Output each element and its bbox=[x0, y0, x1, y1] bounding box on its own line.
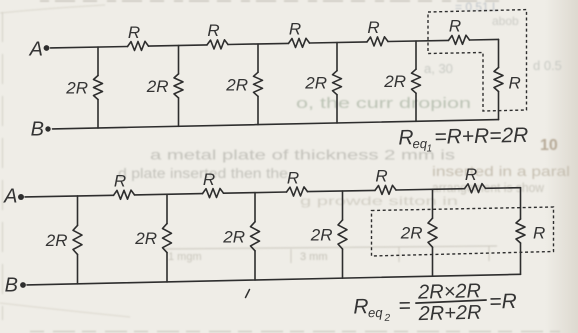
wire: shunt branch 5 vertical (lower circuit) bbox=[432, 189, 434, 276]
svg-text:R: R bbox=[207, 21, 219, 40]
wire: shunt branch 5 vertical (upper circuit) bbox=[415, 41, 417, 121]
resistor R series 4 (lower circuit) bbox=[375, 185, 396, 194]
svg-text:R: R bbox=[114, 172, 126, 191]
equation Req1 = R + R = 2R bbox=[398, 124, 529, 155]
resistor R series 2 (upper circuit) bbox=[207, 40, 228, 49]
fraction bar bbox=[415, 300, 487, 303]
svg-text:o, the curr dropion: o, the curr dropion bbox=[296, 95, 471, 112]
svg-text:R: R bbox=[509, 74, 521, 93]
svg-text:R: R bbox=[289, 20, 301, 39]
node A terminal dot (upper circuit) bbox=[44, 45, 50, 51]
wire: shunt branch 1 vertical (lower circuit) bbox=[77, 196, 79, 284]
resistor 2R shunt 5 (upper circuit) bbox=[412, 69, 421, 93]
wire: shunt branch 3 vertical (upper circuit) bbox=[257, 44, 259, 125]
node B terminal dot (lower circuit) bbox=[20, 282, 26, 288]
svg-text:inserted in a paral: inserted in a paral bbox=[432, 163, 570, 179]
stray comma mark under bottom rail bbox=[246, 290, 250, 298]
svg-text:R: R bbox=[465, 165, 477, 184]
equation Req2 = 2Rx2R/(2R+2R) = R bbox=[353, 279, 517, 326]
svg-text:= 0.51 L: = 0.51 L bbox=[455, 0, 499, 14]
svg-text:a, 30: a, 30 bbox=[424, 61, 453, 76]
svg-text:2R: 2R bbox=[134, 229, 157, 248]
svg-text:=R+R=2R: =R+R=2R bbox=[434, 124, 528, 149]
node A terminal dot (lower circuit) bbox=[18, 194, 24, 200]
svg-text:B: B bbox=[5, 275, 18, 297]
svg-text:2R: 2R bbox=[383, 72, 406, 91]
svg-text:3 mm: 3 mm bbox=[300, 251, 328, 263]
wire: node A top rail (lower circuit) bbox=[25, 188, 521, 197]
svg-text:=R: =R bbox=[489, 290, 517, 314]
svg-text:A: A bbox=[29, 39, 43, 61]
resistor R series 3 (upper circuit) bbox=[289, 38, 310, 47]
svg-text:10: 10 bbox=[540, 137, 558, 154]
svg-text:R: R bbox=[203, 170, 215, 189]
resistor R series 2 (lower circuit) bbox=[203, 189, 224, 198]
svg-text:d 0.5: d 0.5 bbox=[533, 58, 562, 73]
svg-text:2R: 2R bbox=[65, 79, 88, 98]
svg-text:2R: 2R bbox=[146, 77, 169, 96]
svg-text:eq: eq bbox=[368, 305, 384, 320]
resistor 2R shunt 4 (lower circuit) bbox=[338, 220, 347, 249]
svg-text:R: R bbox=[533, 224, 545, 243]
svg-text:2R: 2R bbox=[304, 74, 327, 93]
ghost table lines bbox=[163, 246, 497, 249]
wire: shunt branch 4 vertical (upper circuit) bbox=[336, 43, 338, 124]
svg-text:R: R bbox=[375, 167, 387, 186]
wire: node B bottom rail (lower circuit) bbox=[27, 274, 521, 285]
wire: shunt branch 4 vertical (lower circuit) bbox=[342, 191, 344, 278]
resistor R series 5 (lower circuit) bbox=[465, 184, 486, 193]
resistor R series 5 (upper circuit) bbox=[449, 35, 470, 44]
resistor 2R shunt 3 (lower circuit) bbox=[251, 222, 260, 251]
wire: right vertical segment (lower circuit) bbox=[520, 188, 522, 275]
resistor 2R shunt 1 (lower circuit) bbox=[73, 225, 82, 254]
svg-text:A: A bbox=[3, 186, 17, 208]
svg-text:R: R bbox=[353, 295, 369, 318]
wire: shunt branch 3 vertical (lower circuit) bbox=[254, 193, 256, 280]
svg-text:2R: 2R bbox=[310, 226, 333, 245]
svg-text:2: 2 bbox=[384, 313, 391, 324]
wire: shunt branch 2 vertical (upper circuit) bbox=[178, 46, 180, 127]
wire: shunt branch 2 vertical (lower circuit) bbox=[166, 194, 168, 282]
resistor 2R shunt 3 (upper circuit) bbox=[254, 72, 263, 96]
svg-text:2R: 2R bbox=[45, 231, 68, 250]
svg-text:R: R bbox=[128, 23, 140, 42]
resistor R series 1 (lower circuit) bbox=[114, 190, 135, 199]
dashed highlight box around last 2R and R shunts (lower circuit) bbox=[372, 207, 554, 256]
svg-text:R: R bbox=[449, 17, 461, 36]
faint scan line bottom left bbox=[0, 303, 130, 317]
resistor 2R shunt 5 (lower circuit) bbox=[428, 218, 437, 247]
faint scan line top left bbox=[0, 5, 105, 13]
svg-text:1: 1 bbox=[426, 143, 432, 154]
svg-text:R: R bbox=[287, 168, 299, 187]
node B terminal dot (upper circuit) bbox=[45, 126, 50, 131]
resistor 2R shunt 4 (upper circuit) bbox=[333, 71, 342, 95]
wire: right vertical segment (upper circuit) bbox=[498, 39, 500, 119]
resistor 2R shunt 1 (upper circuit) bbox=[94, 76, 103, 100]
resistor R shunt right (upper circuit) bbox=[494, 68, 503, 92]
svg-text:abob: abob bbox=[492, 14, 519, 28]
dashed highlight box around last R series and R shunt (upper circuit) bbox=[428, 10, 527, 111]
svg-text:2R+2R: 2R+2R bbox=[417, 302, 481, 325]
resistor 2R shunt 2 (upper circuit) bbox=[174, 74, 183, 98]
svg-text:2R: 2R bbox=[400, 224, 423, 243]
svg-text:2R: 2R bbox=[225, 75, 248, 94]
svg-text:R: R bbox=[367, 18, 379, 37]
resistor R shunt right (lower circuit) bbox=[516, 219, 525, 243]
resistor 2R shunt 2 (lower circuit) bbox=[163, 224, 172, 253]
svg-text:B: B bbox=[31, 119, 44, 141]
wire: shunt branch 1 vertical (upper circuit) bbox=[97, 47, 99, 128]
resistor R series 4 (upper circuit) bbox=[367, 37, 388, 46]
wire: node A top rail (upper circuit) bbox=[51, 39, 499, 48]
svg-text:2R: 2R bbox=[222, 227, 245, 246]
wire: node B bottom rail (upper circuit) bbox=[53, 120, 499, 129]
svg-text:g prowde sitton in: g prowde sitton in bbox=[300, 194, 458, 208]
resistor R series 3 (lower circuit) bbox=[287, 187, 308, 196]
svg-text:1 mgm: 1 mgm bbox=[168, 251, 202, 263]
svg-text:=: = bbox=[398, 294, 411, 317]
resistor R series 1 (upper circuit) bbox=[128, 41, 149, 50]
